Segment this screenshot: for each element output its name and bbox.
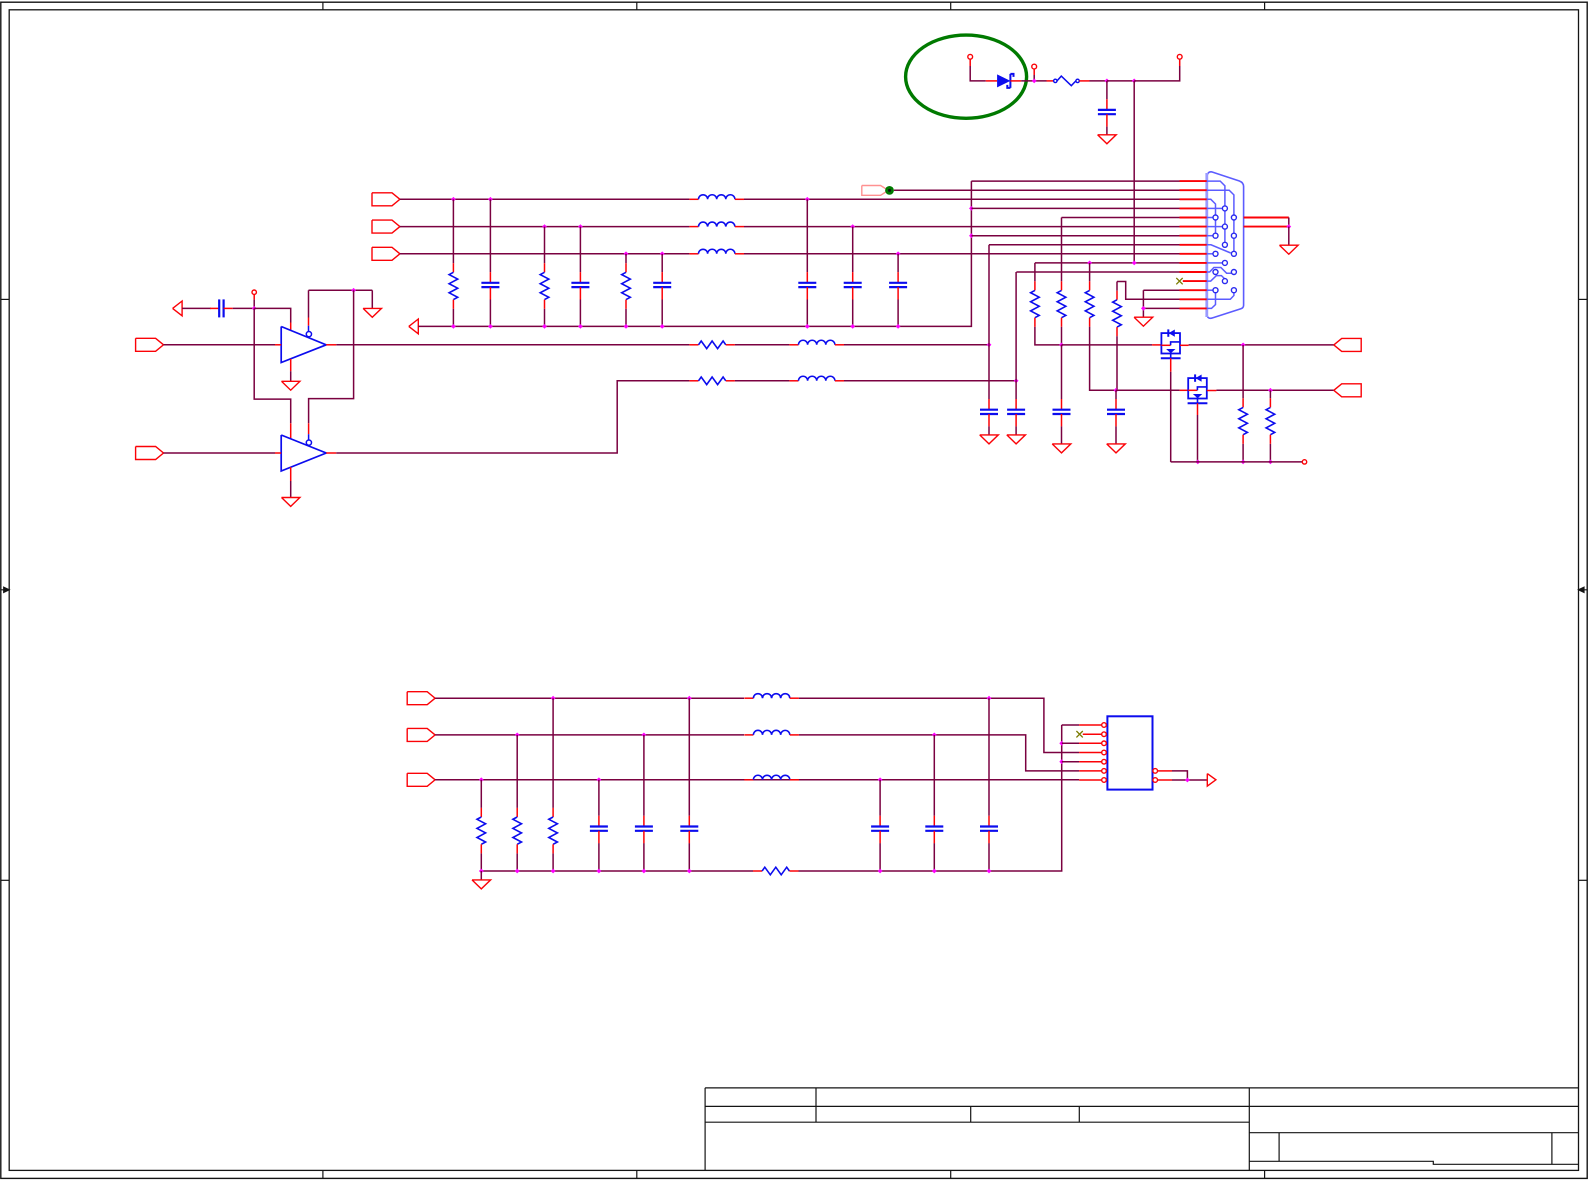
TVS U4 (V line) bbox=[1180, 389, 1189, 391]
wire U1 feedback top bbox=[309, 289, 373, 291]
J1 hole mid 5 bbox=[1222, 279, 1227, 284]
inductor L1 (R channel) bbox=[689, 195, 744, 200]
junction D rail bbox=[479, 869, 484, 874]
J1 right pin row5 bbox=[1244, 217, 1289, 219]
ground rail right bbox=[1171, 461, 1303, 463]
junction B-R3 bbox=[624, 251, 629, 256]
resistor R1 bbox=[449, 263, 458, 309]
wire C11 column bbox=[1061, 345, 1063, 399]
wire U1 bubble pin bbox=[308, 290, 310, 317]
junction D rail bbox=[642, 869, 647, 874]
TVS U3 (H line) bbox=[1152, 344, 1161, 346]
wire C8 to junction bbox=[233, 307, 255, 309]
wire DDC to connector row2 bbox=[894, 189, 1180, 191]
wire U3 bottom bbox=[1170, 358, 1172, 372]
inductor L6 (D1) bbox=[744, 694, 799, 699]
arrow D output bbox=[1207, 774, 1216, 787]
port D input 1 bbox=[407, 692, 435, 705]
wire C4 column bbox=[661, 254, 663, 272]
op-amp U2 (V buffer) bbox=[281, 435, 326, 471]
junction U5 pin5 bbox=[1059, 759, 1064, 764]
resistor R6 bbox=[1085, 281, 1094, 327]
capacitor C2 bbox=[481, 272, 499, 299]
title block outline bbox=[705, 1088, 1578, 1171]
inductor L8 (D3) bbox=[744, 775, 799, 780]
J1 trace pin7 bbox=[1207, 235, 1213, 237]
J1 hole right 3 bbox=[1231, 251, 1236, 256]
wire R13 column bbox=[516, 735, 518, 808]
wire R5 bottom to junction bbox=[1061, 327, 1063, 345]
junction power rail bbox=[1132, 79, 1137, 84]
wire R9 to L5 bbox=[735, 380, 790, 382]
J1 hole mid 2 bbox=[1222, 224, 1227, 229]
pin stub row12 (NC) bbox=[1183, 280, 1207, 282]
resistor R11 bbox=[1266, 398, 1275, 444]
capacitor C4 bbox=[653, 272, 671, 299]
J1 hole right 4 bbox=[1231, 270, 1236, 275]
capacitor C12 bbox=[1107, 399, 1125, 426]
wire feedback down-right to U1 supply pin bbox=[254, 308, 291, 423]
zone tick right 2 bbox=[1579, 879, 1588, 881]
J1 trace pin9 bbox=[1207, 253, 1213, 255]
U5 pin circle 1 bbox=[1102, 723, 1107, 728]
junction U5 outputs bbox=[1185, 778, 1190, 783]
green marker dot bbox=[885, 186, 894, 195]
pin stub row8 bbox=[1180, 244, 1207, 246]
J1 trace pin15 bbox=[1207, 293, 1216, 308]
J1 hole left 3 bbox=[1213, 251, 1218, 256]
wire P4 down bbox=[253, 294, 255, 299]
D ground rail left bbox=[481, 870, 753, 872]
J1 trace pin8 bbox=[1207, 245, 1231, 253]
wire to U2 bubble bbox=[308, 423, 310, 434]
J1 hole left 5 bbox=[1213, 288, 1218, 293]
zone tick left 1 bbox=[1, 298, 9, 300]
J1 hole left 2 bbox=[1213, 233, 1218, 238]
J1 trace pin3 bbox=[1207, 199, 1216, 233]
junction R-C5 bbox=[805, 197, 810, 202]
J1 hole left 4 bbox=[1213, 270, 1218, 275]
J1 hole right 5 bbox=[1231, 288, 1236, 293]
wire R7 column top bbox=[1116, 282, 1118, 291]
junction H at C9 column bbox=[987, 342, 992, 347]
wire to ground right bbox=[1288, 227, 1290, 246]
no-connect row12 bbox=[1176, 278, 1182, 284]
zone tick bottom 2 bbox=[636, 1170, 638, 1178]
port BLUE input bbox=[372, 247, 400, 260]
pin stub row5 bbox=[1180, 217, 1207, 219]
pin stub row7 bbox=[1180, 235, 1207, 237]
zone tick top 3 bbox=[950, 2, 952, 10]
U5 pin circle 6 bbox=[1102, 769, 1107, 774]
junction R11 top bbox=[1268, 388, 1273, 393]
junction rail-C3 bbox=[578, 324, 583, 329]
zone tick top 4 bbox=[1264, 2, 1266, 10]
pin stub row13 bbox=[1180, 289, 1207, 291]
junction D rail bbox=[687, 869, 692, 874]
wire HSYNC to U1 bbox=[164, 344, 276, 346]
wire D2 row bbox=[435, 734, 744, 736]
pin P5 (open circle) bbox=[1302, 460, 1306, 464]
fuse F1 bbox=[1047, 80, 1054, 82]
port VSYNC input bbox=[136, 447, 164, 460]
junction D1-C16 bbox=[987, 696, 992, 701]
wire VSYNC to U2 bbox=[164, 452, 276, 454]
wire row11 bbox=[1016, 271, 1179, 273]
wire R11 column bbox=[1269, 390, 1271, 398]
junction G-C3 bbox=[578, 224, 583, 229]
wire row8 bbox=[989, 244, 1180, 246]
port D input 3 bbox=[407, 773, 435, 786]
wire C18 column bbox=[879, 780, 881, 816]
gnd2 column wire bbox=[1142, 290, 1144, 317]
pin stub row6 bbox=[1180, 226, 1207, 228]
junction row10-power bbox=[1132, 261, 1137, 266]
resistor R2 bbox=[540, 263, 549, 309]
pin P1 (open circle) bbox=[968, 54, 973, 59]
U5 pin circle 2 bbox=[1102, 732, 1107, 737]
junction rail-C7 bbox=[896, 324, 901, 329]
junction right pins bbox=[1286, 224, 1291, 229]
junction R10 top bbox=[1241, 343, 1246, 348]
J1 hole left 1 bbox=[1213, 215, 1218, 220]
wire R5a column top bbox=[1061, 218, 1063, 282]
inductor L3 (B channel) bbox=[689, 249, 744, 254]
J1 hole mid 4 bbox=[1222, 260, 1227, 265]
wire output feedback vertical bbox=[309, 290, 354, 423]
wire C11 to ground bbox=[1061, 426, 1063, 444]
capacitor C11 bbox=[1053, 399, 1071, 426]
ground connector right bbox=[1280, 245, 1299, 254]
wire row5 bbox=[1062, 217, 1180, 219]
wire C12 to ground bbox=[1115, 426, 1117, 444]
resistor R8 (H series) bbox=[689, 341, 735, 349]
wire R7 bottom to V-line bbox=[1116, 336, 1118, 390]
wire R12 column bbox=[480, 780, 482, 808]
U5 pin circle 7 bbox=[1102, 778, 1107, 783]
wire R3 column bbox=[625, 254, 627, 263]
capacitor C5 bbox=[798, 272, 816, 299]
junction rail R11 bbox=[1268, 460, 1273, 465]
zone tick bottom 1 bbox=[322, 1170, 324, 1178]
U5 out wires bbox=[1158, 770, 1173, 772]
capacitor C13 bbox=[590, 816, 608, 843]
junction V at C10 column bbox=[1014, 378, 1019, 383]
capacitor C16 bbox=[980, 816, 998, 843]
resistor R9 (V series) bbox=[689, 377, 735, 385]
junction rail-R1 bbox=[451, 324, 456, 329]
capacitor C17 bbox=[925, 816, 943, 843]
wire R6 column top bbox=[1089, 263, 1091, 281]
U5 pin6 wire bbox=[1079, 770, 1102, 772]
J1 trace pin5 bbox=[1207, 217, 1213, 219]
wire C10 to ground bbox=[1015, 426, 1017, 435]
wire C5 column bbox=[806, 199, 808, 272]
resistor R3 bbox=[622, 263, 631, 309]
junction feedback-output bbox=[351, 288, 356, 293]
junction row10-R5col bbox=[1087, 261, 1092, 266]
ground C10 bbox=[1007, 435, 1026, 444]
connector J1 body bbox=[1207, 172, 1244, 318]
wire D2 after L7 bbox=[799, 735, 1079, 771]
junction D2-C17 bbox=[932, 733, 937, 738]
wire B row to connector bbox=[744, 253, 1180, 255]
junction B-C4 bbox=[660, 251, 665, 256]
ground below C1 bbox=[1098, 135, 1117, 144]
capacitor C8 bbox=[210, 299, 233, 317]
J1 hole right 1 bbox=[1231, 215, 1236, 220]
wire U4 bottom bbox=[1197, 403, 1199, 415]
pin stub row1 bbox=[1180, 180, 1207, 182]
junction R-C2 bbox=[488, 197, 493, 202]
U5 pin2 (NC) bbox=[1076, 731, 1082, 737]
junction feedback node bbox=[252, 306, 257, 311]
wire D1 after L6 bbox=[799, 698, 1079, 752]
zone tick top 2 bbox=[636, 2, 638, 10]
J1 trace pin2 bbox=[1207, 190, 1234, 251]
U5 pin4 wire bbox=[1079, 752, 1102, 754]
wire C9 to ground bbox=[988, 426, 990, 435]
pin P3 (open circle) bbox=[1177, 54, 1182, 59]
junction B-C7 bbox=[896, 251, 901, 256]
ground rail wire bbox=[418, 181, 971, 326]
wire feedback to ground bbox=[371, 290, 373, 308]
wire G row to connector bbox=[744, 226, 1180, 228]
wire C12 column bbox=[1115, 390, 1117, 399]
wire diode to P2 bbox=[1010, 80, 1021, 82]
power rail wire down to row10 bbox=[1133, 81, 1135, 263]
port D input 2 bbox=[407, 728, 435, 741]
wire G row bbox=[400, 226, 690, 228]
resistor R14 bbox=[549, 808, 558, 854]
pin stub row2 bbox=[1180, 189, 1207, 191]
capacitor C1 bbox=[1106, 81, 1108, 99]
junction H-line R5 bbox=[1059, 343, 1064, 348]
pin stub row14 bbox=[1180, 298, 1207, 300]
wire junction to junction bbox=[1107, 80, 1134, 82]
wire fuse to cap junction bbox=[1079, 80, 1089, 82]
junction R-R1 bbox=[451, 197, 456, 202]
wire R10 column bbox=[1242, 345, 1244, 398]
J1 trace pin12 bbox=[1207, 276, 1225, 282]
wire D3 row bbox=[435, 779, 1079, 781]
junction rail-R2 bbox=[542, 324, 547, 329]
J1 trace pin6 bbox=[1207, 226, 1223, 228]
connector J1 left edge band bbox=[1205, 173, 1208, 317]
wire row13 bbox=[1143, 289, 1179, 291]
resistor R13 bbox=[513, 808, 522, 854]
capacitor C7 bbox=[889, 272, 907, 299]
junction D rail bbox=[551, 869, 556, 874]
wire C3 column bbox=[579, 227, 581, 273]
wire B row bbox=[400, 253, 690, 255]
wire P2 down bbox=[1033, 69, 1035, 75]
U2 enable bubble bbox=[306, 440, 311, 445]
wire C2 column bbox=[489, 199, 491, 272]
U2 ground pin bbox=[290, 467, 292, 481]
wire R row to connector bbox=[744, 198, 1180, 200]
wire H-net to TVS1 bbox=[1062, 344, 1153, 346]
centering arrow left edge bbox=[1, 587, 9, 592]
capacitor C15 bbox=[680, 816, 698, 843]
junction D3-C18 bbox=[878, 777, 883, 782]
wire C17 column bbox=[933, 735, 935, 816]
ground U2 bbox=[282, 498, 300, 507]
ground D rail bbox=[480, 871, 482, 880]
ground U1 feedback bbox=[363, 308, 381, 317]
port GREEN input bbox=[372, 220, 400, 233]
wire L4 to junction bbox=[844, 344, 989, 346]
capacitor C6 bbox=[844, 272, 862, 299]
ground U1 bbox=[282, 381, 300, 390]
pin stub row9 bbox=[1180, 253, 1207, 255]
junction D rail bbox=[515, 869, 520, 874]
wire R8 to L4 bbox=[735, 344, 790, 346]
wire L5 to junction bbox=[844, 380, 1016, 382]
J1 trace pin11 bbox=[1207, 268, 1232, 274]
zone tick left 2 bbox=[1, 879, 9, 881]
junction rail-R3 bbox=[624, 324, 629, 329]
capacitor C3 bbox=[571, 272, 589, 299]
junction cap C1 bbox=[1105, 79, 1110, 84]
pin P4 (open circle) bbox=[252, 290, 256, 294]
junction D-R12 bbox=[479, 777, 484, 782]
port RED input bbox=[372, 193, 400, 206]
wire R1 column bbox=[452, 199, 454, 263]
wire feedback top to U1 enable bbox=[254, 308, 291, 322]
U1 enable bubble bbox=[306, 332, 311, 337]
pin stub row15 bbox=[1180, 307, 1207, 309]
wire H down to C9 bbox=[988, 345, 990, 399]
junction D rail bbox=[597, 869, 602, 874]
junction rail U4 bbox=[1195, 460, 1200, 465]
inductor L7 (D2) bbox=[744, 730, 799, 735]
wire C14 column bbox=[643, 735, 645, 816]
capacitor C18 bbox=[871, 816, 889, 843]
port DDC (green marked) bbox=[862, 186, 889, 196]
J1 trace pin1 bbox=[1207, 181, 1225, 243]
ground C11 bbox=[1052, 444, 1071, 453]
wire U4 to port V-out bbox=[1216, 389, 1333, 391]
wire R6 bottom to V-line bbox=[1090, 327, 1116, 391]
U5 pin circle 4 bbox=[1102, 750, 1107, 755]
ground C9 bbox=[980, 435, 999, 444]
wire U1 output (H line) bbox=[326, 344, 336, 346]
J1 trace pin14 bbox=[1207, 293, 1234, 299]
wire C1 to ground bbox=[1106, 127, 1108, 135]
J1 trace pin10 bbox=[1207, 262, 1223, 264]
junction rail R10 bbox=[1241, 460, 1246, 465]
junction D-C15 bbox=[687, 696, 692, 701]
wire row15 bbox=[1143, 307, 1179, 309]
junction at P2 bbox=[1032, 79, 1037, 84]
capacitor C9 bbox=[980, 399, 998, 426]
pin stub row10 bbox=[1180, 262, 1207, 264]
wire R2 column bbox=[544, 227, 546, 264]
wire R4 column (row10 to H-line) bbox=[1034, 263, 1036, 281]
port V output (right) bbox=[1334, 384, 1361, 397]
junction D rail bbox=[932, 869, 937, 874]
capacitor C10 bbox=[1007, 399, 1025, 426]
junction D rail bbox=[878, 869, 883, 874]
junction row15 gnd2 bbox=[1141, 306, 1146, 311]
zone tick top 1 bbox=[322, 2, 324, 10]
ground C12 bbox=[1107, 444, 1126, 453]
wire U2 output (V line) bbox=[326, 452, 336, 454]
junction D-R13 bbox=[515, 733, 520, 738]
wire R row bbox=[400, 198, 690, 200]
zone tick right 1 bbox=[1579, 298, 1588, 300]
centering arrow right edge bbox=[1579, 587, 1588, 592]
wire row1 (gnd net) bbox=[971, 180, 1179, 182]
pin stub row11 bbox=[1180, 271, 1207, 273]
wire C13 column bbox=[598, 780, 600, 816]
port HSYNC input bbox=[136, 338, 164, 351]
pin P2 (open circle) bbox=[1032, 64, 1037, 69]
resistor R10 bbox=[1239, 398, 1248, 444]
pin stub row4 bbox=[1180, 207, 1207, 209]
wire V-net to TVS2 bbox=[1116, 389, 1180, 391]
wire row4 bbox=[971, 207, 1179, 209]
pin stub row3 bbox=[1180, 198, 1207, 200]
U5 pin7 wire bbox=[1079, 779, 1102, 781]
resistor R4 bbox=[1031, 281, 1040, 327]
green highlight ellipse bbox=[906, 35, 1027, 118]
wire row10 bbox=[1035, 262, 1180, 264]
wire C15 column bbox=[688, 698, 690, 816]
arrow port AGND (rail left end) bbox=[409, 319, 419, 334]
U5 pin1 wire bbox=[1062, 724, 1079, 726]
zone tick bottom 3 bbox=[950, 1170, 952, 1178]
wire H up to row8 bbox=[988, 245, 990, 345]
arrow port (feedback left) bbox=[173, 301, 183, 316]
resistor R15 (rail series) bbox=[753, 867, 799, 875]
inductor L2 (G channel) bbox=[689, 222, 744, 227]
op-amp U1 (H buffer) bbox=[281, 327, 326, 363]
wire right pins join bbox=[1288, 218, 1290, 227]
U5 pin circle 3 bbox=[1102, 741, 1107, 746]
wire row14 bbox=[1117, 282, 1180, 300]
wire C16 column bbox=[988, 698, 990, 816]
J1 trace pin4 bbox=[1207, 207, 1223, 209]
junction row7 gnd bbox=[969, 233, 974, 238]
D ground rail right bbox=[799, 725, 1062, 871]
junction U5 pin3 bbox=[1059, 741, 1064, 746]
resistor R5 bbox=[1057, 281, 1066, 327]
J1 hole mid 3 bbox=[1222, 242, 1227, 247]
junction rail-C5 bbox=[805, 324, 810, 329]
port H output (right) bbox=[1334, 338, 1361, 351]
U5 out pin circles bbox=[1153, 769, 1158, 774]
IC U5 box bbox=[1107, 716, 1152, 789]
J1 right pin row6 bbox=[1244, 226, 1289, 228]
wire C7 column bbox=[897, 254, 899, 272]
wire row7 bbox=[971, 235, 1179, 237]
junction V-line R7 bbox=[1114, 388, 1119, 393]
resistor R7 bbox=[1113, 291, 1122, 337]
capacitor C14 bbox=[635, 816, 653, 843]
inductor L4 (H series) bbox=[789, 340, 844, 345]
junction G-R2 bbox=[542, 224, 547, 229]
U5 pin5 wire bbox=[1062, 761, 1079, 763]
J1 trace pin13 bbox=[1207, 289, 1213, 291]
junction G-C6 bbox=[850, 224, 855, 229]
U5 pin3 wire bbox=[1062, 742, 1079, 744]
wire C6 column bbox=[852, 227, 854, 273]
wire arrow to C8 bbox=[182, 307, 211, 309]
wire P1 down bbox=[969, 59, 971, 66]
diode D1 (schottky) bbox=[986, 80, 997, 82]
